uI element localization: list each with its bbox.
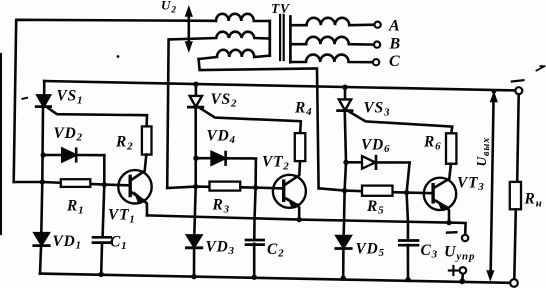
diode VD6 bbox=[346, 156, 410, 169]
wire R1 line from left vertical to VT1 base bbox=[14, 182, 129, 185]
node rail-C1 bbox=[99, 272, 104, 277]
wire VD1 to bottom rail corner bbox=[40, 247, 41, 273]
resistor R5 bbox=[362, 186, 393, 196]
node rail-VD3 bbox=[191, 274, 196, 279]
capacitor C2 bbox=[246, 240, 264, 245]
wire winding3 phase feed to R5 line bbox=[199, 59, 319, 188]
wire top rail phase1 to winding1 bbox=[14, 20, 212, 182]
wire VD4 down through C2 bbox=[254, 158, 256, 238]
wire VS1 vertical upper bbox=[43, 81, 46, 95]
terminal output bottom bbox=[510, 279, 518, 287]
wire C2 to bottom rail bbox=[253, 244, 256, 277]
svg-text:C: C bbox=[389, 53, 400, 70]
node rail-plus bbox=[459, 278, 465, 284]
thyristor VS3 bbox=[338, 99, 352, 110]
resistor R6 bbox=[446, 133, 456, 164]
transformer primary winding 1 bbox=[212, 14, 270, 21]
speck dot near top bbox=[117, 55, 120, 58]
svg-text:VD5: VD5 bbox=[356, 240, 385, 259]
svg-text:VS2: VS2 bbox=[211, 91, 238, 110]
wire plus stub to bottom rail bbox=[461, 274, 464, 281]
wire VT2 emitter drop bbox=[297, 205, 299, 220]
node rail-C2 bbox=[252, 275, 257, 280]
wire VS1 cathode to R1 line to VD1 bbox=[41, 108, 43, 233]
diode VD3 bbox=[186, 235, 201, 247]
thyristor VS1 bbox=[36, 95, 50, 106]
terminal plus circle bbox=[460, 267, 467, 274]
svg-text:VD1: VD1 bbox=[53, 233, 82, 252]
diode VD1 bbox=[34, 233, 49, 245]
terminal C bbox=[373, 59, 379, 65]
svg-text:VS1: VS1 bbox=[57, 88, 84, 107]
transistor VT3 bbox=[424, 178, 456, 210]
wire U2 rail to winding2 corner bbox=[167, 39, 170, 188]
resistor R4 bbox=[295, 133, 306, 161]
node bus-VT3 emitter bbox=[446, 220, 451, 225]
wire R3 line to VT2 base bbox=[167, 187, 282, 189]
resistor R1 bbox=[61, 179, 91, 187]
transformer core bars bbox=[280, 15, 284, 60]
terminal B bbox=[374, 42, 380, 48]
wire C3 to bottom rail bbox=[407, 245, 410, 280]
resistor R2 bbox=[142, 126, 152, 154]
terminal minus circle bbox=[462, 235, 468, 241]
svg-text:VS3: VS3 bbox=[364, 100, 391, 119]
terminal output top bbox=[515, 87, 522, 94]
svg-text:Uупр: Uупр bbox=[444, 244, 475, 263]
wire R6 bottom to VT3 collector bbox=[435, 164, 451, 188]
minus sign bbox=[447, 231, 456, 234]
node VD2-VS1 bbox=[41, 152, 46, 157]
svg-text:TV: TV bbox=[271, 1, 290, 16]
wire anode rail bbox=[44, 81, 515, 90]
node rail-VD5 bbox=[341, 276, 346, 281]
wire bottom rail bbox=[40, 274, 510, 283]
transformer secondary winding C bbox=[290, 55, 373, 63]
node VD4-VS2 bbox=[193, 156, 198, 161]
svg-text:VT1: VT1 bbox=[108, 207, 136, 226]
transistor VT1 bbox=[118, 170, 151, 203]
node R3-VS2 bbox=[193, 184, 198, 189]
node VD6-VS3 bbox=[343, 160, 348, 165]
svg-text:Uвых: Uвых bbox=[474, 137, 492, 166]
wire minus terminal stub bbox=[464, 233, 467, 236]
svg-text:VT2: VT2 bbox=[262, 154, 290, 173]
wire R4 bottom to VT2 collector bbox=[285, 161, 300, 184]
wire VD2 down to C1 bbox=[103, 155, 105, 236]
svg-text:C3: C3 bbox=[421, 242, 438, 261]
wire VD6 down through C3 bbox=[407, 163, 410, 240]
svg-text:VD4: VD4 bbox=[207, 127, 236, 146]
node R3-C2 bbox=[253, 185, 258, 190]
resistor Rn bbox=[510, 182, 521, 209]
svg-text:R6: R6 bbox=[423, 134, 441, 153]
wire VS3 cathode down to VD5 bbox=[344, 113, 346, 236]
wire emitter bus bbox=[147, 215, 466, 234]
terminal A bbox=[375, 22, 381, 28]
wire output top terminal to Rn bbox=[517, 94, 519, 182]
svg-text:C1: C1 bbox=[110, 233, 127, 252]
tick above output terminal bbox=[512, 80, 524, 81]
svg-text:VD2: VD2 bbox=[54, 125, 83, 144]
svg-text:A: A bbox=[388, 18, 400, 35]
wire Rn to bottom right terminal bbox=[514, 209, 516, 279]
transformer secondary winding A bbox=[290, 18, 374, 25]
left edge scan artifact bbox=[0, 54, 2, 234]
wire R2 bottom to VT1 collector bbox=[131, 155, 146, 180]
thyristor VS2 bbox=[188, 96, 202, 107]
capacitor C1 bbox=[93, 237, 111, 242]
svg-text:VT3: VT3 bbox=[457, 174, 485, 193]
transformer primary winding 2 bbox=[170, 32, 270, 40]
arrow U2 bbox=[185, 7, 192, 52]
svg-text:B: B bbox=[389, 36, 401, 53]
node R1-C1 bbox=[102, 182, 107, 187]
wire VS3 gate to R6 bbox=[348, 111, 452, 133]
wire C1 to bottom rail bbox=[100, 244, 103, 274]
svg-text:VD6: VD6 bbox=[361, 136, 390, 155]
node rail-VS3 bbox=[342, 85, 347, 90]
svg-text:R4: R4 bbox=[294, 99, 312, 118]
wire VD3 to bottom rail bbox=[193, 249, 196, 277]
node bus-VT2 emitter bbox=[297, 217, 302, 222]
wire R5 line to VT3 base bbox=[319, 188, 432, 193]
diode VD2 bbox=[43, 149, 104, 162]
node rail-VS2 bbox=[193, 82, 198, 87]
svg-text:R1: R1 bbox=[66, 198, 84, 217]
speck top right bbox=[537, 66, 545, 70]
wire VS1 gate to R2 bbox=[47, 107, 147, 127]
node rail-arrow bbox=[492, 89, 497, 94]
svg-text:R5: R5 bbox=[366, 198, 384, 217]
svg-text:VD3: VD3 bbox=[206, 238, 235, 257]
svg-text:C2: C2 bbox=[267, 241, 284, 260]
wire VS3 vertical upper bbox=[344, 87, 347, 99]
capacitor C3 bbox=[399, 241, 418, 246]
wire VT1 emitter drop bbox=[144, 201, 147, 216]
node R5-C3 bbox=[404, 190, 409, 195]
svg-text:R3: R3 bbox=[212, 197, 230, 216]
wire VS2 gate to R4 bbox=[199, 107, 301, 133]
node R5-VS3 bbox=[342, 188, 347, 193]
svg-text:R2: R2 bbox=[115, 134, 133, 153]
transformer secondary winding B bbox=[290, 37, 374, 45]
arrow Uvyh output voltage bbox=[487, 92, 497, 280]
wire VD5 to bottom rail bbox=[342, 250, 345, 278]
wire VT3 emitter drop bbox=[447, 207, 449, 222]
diode VD5 bbox=[336, 236, 351, 248]
plus sign bbox=[449, 266, 458, 275]
wire VS2 vertical upper bbox=[195, 84, 198, 96]
diode VD4 bbox=[196, 152, 256, 165]
wire secondary bus bbox=[289, 17, 292, 63]
transformer primary winding 3 bbox=[199, 50, 270, 59]
speck left of VS1 bbox=[23, 98, 28, 99]
wire primary bus bbox=[268, 21, 271, 56]
node rail-C3 bbox=[405, 277, 410, 282]
resistor R3 bbox=[210, 182, 241, 191]
svg-text:Rн: Rн bbox=[524, 191, 543, 210]
svg-text:U2: U2 bbox=[161, 0, 177, 15]
transistor VT2 bbox=[273, 175, 306, 208]
wire VS2 cathode down to VD3 bbox=[194, 109, 195, 235]
node R1-VS1 bbox=[40, 179, 45, 184]
